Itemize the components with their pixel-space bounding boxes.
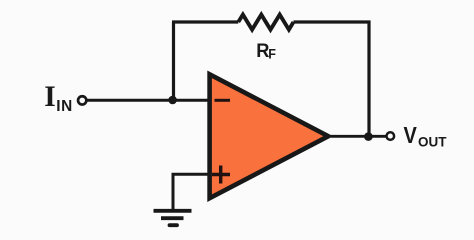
wire input horizontal — [87, 99, 209, 102]
junction dot inverting node — [168, 96, 177, 105]
junction dot output node — [364, 132, 373, 141]
svg-text:F: F — [268, 46, 276, 62]
wire feedback right vertical — [367, 21, 370, 137]
wire feedback left vertical — [172, 22, 175, 100]
label RF — [256, 40, 269, 62]
wire output — [331, 135, 386, 138]
plus sign non-inverting input — [212, 166, 230, 184]
svg-text:V: V — [404, 122, 418, 149]
svg-text:IN: IN — [56, 98, 73, 115]
wire feedback top left segment — [172, 20, 238, 23]
wire ground to non-inverting input — [173, 174, 208, 209]
ground symbol — [154, 209, 192, 213]
resistor RF zigzag — [238, 15, 293, 30]
svg-text:I: I — [44, 81, 55, 113]
wire feedback top right segment — [294, 20, 371, 23]
label VOUT — [404, 122, 418, 149]
svg-text:OUT: OUT — [418, 133, 447, 149]
minus sign inverting input — [215, 99, 231, 102]
op-amp U1 — [210, 74, 329, 198]
terminal circle output — [387, 132, 395, 140]
terminal circle input — [78, 96, 86, 104]
